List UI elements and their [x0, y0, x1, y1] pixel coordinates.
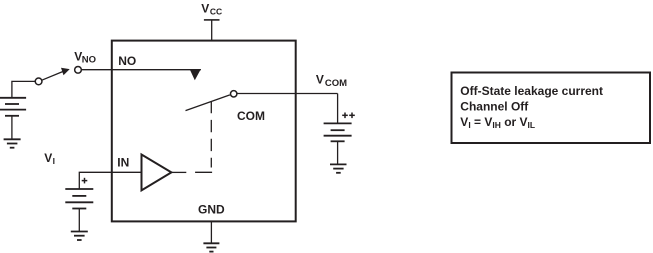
wire battery B1 to ground — [11, 116, 13, 140]
battery B3 (VCOM source) — [324, 123, 352, 141]
wire COM to VCOM corner — [237, 93, 338, 95]
switch S1 throw circle (VNO terminal) — [75, 66, 82, 73]
svg-text:CC: CC — [210, 7, 222, 17]
IC U1 outline — [112, 41, 296, 222]
plus-plus label of battery B3 — [342, 113, 355, 119]
ground under B1 — [4, 139, 21, 147]
note text — [460, 84, 603, 130]
svg-text:V: V — [316, 72, 324, 86]
battery B2 (VI source) — [65, 189, 93, 209]
switch S1 arrowhead — [61, 68, 70, 76]
ground under B2 — [71, 232, 88, 241]
svg-text:COM: COM — [325, 78, 347, 89]
label VCOM — [316, 72, 347, 89]
ground under IC — [203, 243, 219, 251]
wire battery B3 to ground — [337, 141, 339, 164]
svg-text:VI = VIH or VIL: VI = VIH or VIL — [460, 115, 535, 130]
label VCC — [201, 1, 222, 16]
note box — [452, 73, 651, 144]
svg-text:Off-State leakage current: Off-State leakage current — [460, 84, 603, 98]
switch S1 arm — [42, 72, 63, 81]
svg-text:Channel Off: Channel Off — [460, 100, 529, 114]
label VI — [44, 151, 55, 166]
wire VNO terminal to pin NO — [81, 69, 200, 71]
wire VI to pin IN — [79, 172, 141, 189]
ground under B3 — [330, 164, 347, 172]
dashed control line horizontal — [186, 171, 212, 173]
wire GND stub — [210, 221, 212, 243]
NO contact arrow — [190, 69, 201, 80]
wire buffer output lead — [171, 171, 186, 173]
svg-text:COM: COM — [237, 109, 265, 123]
svg-text:NO: NO — [118, 54, 136, 68]
power VCC T-bar — [204, 19, 220, 21]
wire VCOM corner down to battery B3 — [337, 94, 339, 124]
svg-text:V: V — [201, 1, 209, 15]
wire VCC stub — [211, 20, 213, 41]
svg-text:I: I — [53, 156, 55, 166]
svg-text:V: V — [44, 151, 52, 165]
svg-text:NO: NO — [82, 54, 96, 65]
COM pole circle — [231, 91, 237, 97]
switch S1 pole circle — [35, 78, 42, 85]
wire battery B1 top to switch pole — [12, 81, 36, 97]
driver buffer U1a — [142, 155, 172, 191]
label VNO — [74, 49, 96, 65]
dashed control line vertical — [210, 101, 212, 168]
battery B1 (VNO source) — [0, 98, 26, 116]
switch pole arm (inside, COM) — [186, 95, 230, 111]
svg-text:GND: GND — [198, 203, 225, 217]
svg-text:IN: IN — [117, 156, 129, 170]
wire battery B2 to ground — [78, 209, 80, 232]
plus sign of battery B2 — [82, 178, 88, 184]
